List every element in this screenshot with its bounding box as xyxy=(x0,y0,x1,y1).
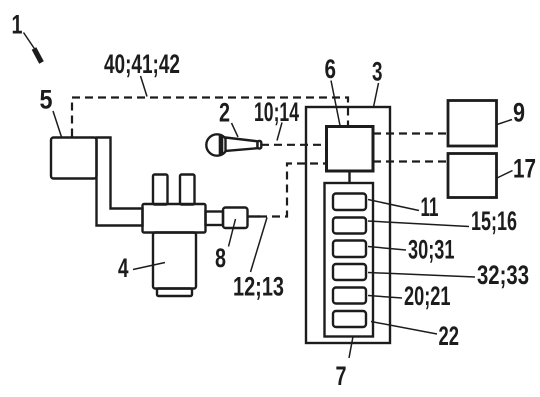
leader 30;31 xyxy=(368,247,406,251)
leader 40;41;42 xyxy=(141,76,148,97)
svg-text:30;31: 30;31 xyxy=(408,235,455,265)
cell rect 30;31 xyxy=(333,241,366,258)
svg-text:6: 6 xyxy=(325,54,337,84)
cell rect 20;21 xyxy=(333,288,366,304)
box 3 outer housing xyxy=(306,107,390,343)
svg-text:11: 11 xyxy=(421,192,439,222)
dashed wire 40;41;42 from box5 top to box6 top xyxy=(72,98,348,137)
svg-text:32;33: 32;33 xyxy=(477,260,529,290)
svg-text:5: 5 xyxy=(40,85,53,115)
svg-text:8: 8 xyxy=(215,243,226,273)
cell rect 32;33 xyxy=(333,264,366,280)
leader 11 xyxy=(368,200,419,211)
box 7 inner frame xyxy=(325,183,374,337)
svg-text:3: 3 xyxy=(372,57,383,87)
dashed wire 12;13 from box8 to box6 xyxy=(259,164,327,217)
wire box6 to box7 xyxy=(348,171,350,183)
arrowhead of reference 1 xyxy=(34,49,42,63)
body 4 base xyxy=(157,289,192,297)
leader 32;33 xyxy=(368,273,475,278)
leader 12;13 xyxy=(251,218,268,273)
dashed wire box6 to box17 xyxy=(373,160,448,162)
body 4 cylinder xyxy=(153,233,196,289)
dashed wire box6 to box9 xyxy=(373,132,448,134)
svg-text:10;14: 10;14 xyxy=(254,97,299,127)
svg-text:1: 1 xyxy=(12,10,23,40)
svg-text:20;21: 20;21 xyxy=(404,281,451,311)
arm (crank from box 5 to body 4) xyxy=(97,138,143,226)
body 4 main block xyxy=(143,204,206,233)
leader 8 xyxy=(229,219,236,247)
leader 10;14 xyxy=(277,123,282,141)
leader 17 xyxy=(497,171,513,179)
microphone 2 grille bar xyxy=(219,135,224,154)
connector body4 to box8 xyxy=(206,212,224,226)
box 8 xyxy=(223,208,248,229)
leader 3 xyxy=(374,83,379,107)
svg-text:22: 22 xyxy=(439,321,460,351)
svg-text:15;16: 15;16 xyxy=(471,206,517,236)
leader 22 xyxy=(371,322,437,335)
cell rect 22 xyxy=(333,311,366,327)
leader 7 xyxy=(349,337,353,359)
leader 5 xyxy=(53,111,62,137)
svg-text:9: 9 xyxy=(513,98,525,128)
dashed wire 10;14 from mic to box6 xyxy=(261,144,327,146)
svg-text:4: 4 xyxy=(118,253,129,283)
leader 2 xyxy=(232,123,239,137)
cell rect 11 xyxy=(333,194,366,211)
box 9 xyxy=(448,101,497,147)
svg-text:12;13: 12;13 xyxy=(233,272,284,302)
leader 15;16 xyxy=(368,221,469,227)
box 17 xyxy=(448,154,497,198)
svg-text:17: 17 xyxy=(513,154,536,184)
leader 4 xyxy=(133,263,165,270)
leader arrow line 1 xyxy=(24,33,36,50)
svg-text:40;41;42: 40;41;42 xyxy=(104,49,180,79)
leader 20;21 xyxy=(368,296,402,299)
svg-text:2: 2 xyxy=(219,98,230,128)
svg-text:7: 7 xyxy=(336,361,347,391)
cell rect 15;16 xyxy=(333,218,366,234)
box 5 xyxy=(51,138,97,179)
prong left on body 4 xyxy=(153,175,168,205)
wire box8 right stub xyxy=(248,215,261,217)
leader 6 xyxy=(331,81,340,126)
microphone 2 head xyxy=(206,134,227,155)
box 6 xyxy=(327,127,374,172)
prong right on body 4 xyxy=(180,175,195,205)
microphone 2 cone xyxy=(226,138,258,152)
leader 9 xyxy=(497,120,512,125)
microphone 2 tip xyxy=(258,141,262,149)
